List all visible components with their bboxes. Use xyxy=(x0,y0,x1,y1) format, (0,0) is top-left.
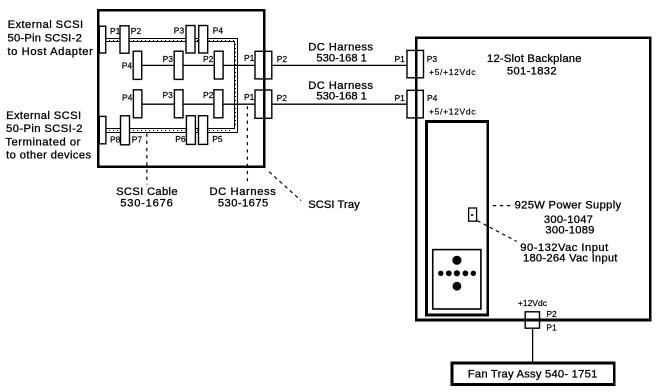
svg-text:Fan Tray Assy 540- 1751: Fan Tray Assy 540- 1751 xyxy=(468,368,598,380)
connector P2 row2 xyxy=(214,51,223,79)
label: 12-Slot Backplane 501-1832 xyxy=(487,53,582,78)
svg-text:P4: P4 xyxy=(122,60,133,70)
dashed callout: DC harness 530-1675 xyxy=(246,106,248,184)
dashed callout: SCSI tray xyxy=(267,170,301,201)
svg-text:P6: P6 xyxy=(175,134,186,144)
wire row3: P4-P3-P2-P1 and out to backplane P1 xyxy=(137,103,409,105)
svg-text:P1: P1 xyxy=(244,92,255,102)
backplane connector P1/P3 (straddles backplane wall) xyxy=(407,50,424,77)
label: DC Harness 530-1681 (upper) xyxy=(308,42,373,65)
svg-text:P3: P3 xyxy=(174,25,185,35)
svg-text:Terminated or: Terminated or xyxy=(5,137,80,149)
backplane connector P1/P4 (straddles backplane wall) xyxy=(407,90,423,118)
svg-text:12-Slot Backplane: 12-Slot Backplane xyxy=(487,53,582,65)
svg-text:P7: P7 xyxy=(132,135,143,145)
power switch xyxy=(469,208,477,221)
svg-text:530-1675: 530-1675 xyxy=(218,198,268,210)
svg-text:SCSI Tray: SCSI Tray xyxy=(308,199,360,211)
svg-text:50-Pin SCSI-2: 50-Pin SCSI-2 xyxy=(6,123,82,135)
connector pair P6/P5 row4 xyxy=(186,116,195,145)
pin labels row2 xyxy=(122,53,288,70)
label: 925W Power Supply xyxy=(515,200,622,237)
connector P2 row1 xyxy=(120,26,129,53)
pin labels row4 xyxy=(110,134,223,145)
svg-text:to Host Adapter: to Host Adapter xyxy=(8,46,94,58)
connector P4 row2 xyxy=(133,51,142,79)
svg-text:P5: P5 xyxy=(212,134,223,144)
svg-text:SCSI Cable: SCSI Cable xyxy=(116,186,178,198)
connector rect A (row1, at left edge, P1) xyxy=(99,26,105,53)
12-slot backplane box xyxy=(416,38,650,320)
dashed callout: 90-132 Vac input xyxy=(477,221,516,242)
svg-text:to other devices: to other devices xyxy=(6,150,91,162)
SCSI tray box xyxy=(98,10,264,167)
svg-text:P4: P4 xyxy=(122,92,133,102)
connector P3 row2 xyxy=(174,51,183,79)
svg-text:P1: P1 xyxy=(395,54,406,64)
svg-text:P1: P1 xyxy=(244,53,255,63)
label: External SCSI to host adapter xyxy=(8,19,94,58)
svg-text:P3: P3 xyxy=(163,90,174,100)
connector rect B (row4, at left edge, P8) xyxy=(99,116,106,143)
dashed callout: 925W power supply xyxy=(493,205,514,207)
svg-text:530-1676: 530-1676 xyxy=(120,198,173,210)
svg-text:DC Harness: DC Harness xyxy=(210,186,277,198)
925W power supply box xyxy=(427,122,488,316)
svg-text:530-168 1: 530-168 1 xyxy=(316,53,367,65)
label: External SCSI terminated xyxy=(5,110,91,162)
svg-text:P1: P1 xyxy=(395,93,406,103)
svg-text:300-1089: 300-1089 xyxy=(545,225,594,237)
dashed callout: SCSI cable xyxy=(146,134,148,185)
backplane pin labels upper xyxy=(395,54,477,77)
wire fan connector to fan tray xyxy=(532,328,534,362)
label: DC Harness 530-1675 xyxy=(210,186,277,210)
svg-text:P8: P8 xyxy=(110,135,121,145)
svg-text:50-Pin SCSI-2: 50-Pin SCSI-2 xyxy=(8,33,82,45)
receptacle pins xyxy=(438,256,476,291)
svg-text:P4: P4 xyxy=(213,25,224,35)
connector pair P3/P4 row1 xyxy=(186,26,195,54)
label: Vac input xyxy=(520,242,618,265)
svg-text:+12Vdc: +12Vdc xyxy=(518,298,548,308)
svg-text:P2: P2 xyxy=(277,54,288,64)
svg-text:P2: P2 xyxy=(203,90,214,100)
svg-text:925W Power Supply: 925W Power Supply xyxy=(515,200,622,212)
pin labels row1 xyxy=(110,25,223,36)
svg-text:P2: P2 xyxy=(277,93,288,103)
wire row2: P4-P3-P2-P1 and out to backplane P1 xyxy=(137,64,409,66)
connector P1/P2 row2 (straddles tray wall) xyxy=(255,51,272,79)
svg-text:P3: P3 xyxy=(427,54,438,64)
svg-text:+5/+12Vdc: +5/+12Vdc xyxy=(429,67,476,77)
backplane pin labels lower xyxy=(395,93,477,117)
connector P3 row3 xyxy=(174,90,183,118)
svg-text:180-264 Vac Input: 180-264 Vac Input xyxy=(523,253,618,265)
label: DC Harness 530-1681 (lower) xyxy=(308,80,373,103)
svg-text:P3: P3 xyxy=(163,54,174,64)
AC receptacle xyxy=(433,250,481,309)
SCSI cable ribbon (530-1676), top run / right run / bottom run xyxy=(100,39,238,133)
svg-text:501-1832: 501-1832 xyxy=(507,65,557,77)
svg-text:External SCSI: External SCSI xyxy=(6,110,81,122)
connector P7 row4 xyxy=(121,116,130,145)
svg-text:P2: P2 xyxy=(203,54,214,64)
svg-text:+5/+12Vdc: +5/+12Vdc xyxy=(429,107,476,117)
svg-text:P2: P2 xyxy=(546,309,557,319)
svg-text:530-168 1: 530-168 1 xyxy=(316,90,367,102)
svg-text:P2: P2 xyxy=(131,26,142,36)
svg-text:P4: P4 xyxy=(427,93,438,103)
svg-text:External SCSI: External SCSI xyxy=(8,19,84,31)
label: +12Vdc / P2 / P1 at fan connector xyxy=(518,298,557,333)
fan tray box xyxy=(452,363,614,385)
label: SCSI Cable 530-1676 xyxy=(116,186,178,210)
connector P2 row3 xyxy=(214,90,223,118)
connector P1/P2 row3 (straddles tray wall) xyxy=(255,90,272,118)
svg-text:P1: P1 xyxy=(546,323,557,333)
svg-text:P1: P1 xyxy=(110,26,121,36)
pin labels row3 xyxy=(122,90,287,103)
fan power connector P2/P1 (straddles backplane bottom wall) xyxy=(525,312,539,328)
connector P4 row3 xyxy=(133,90,142,118)
